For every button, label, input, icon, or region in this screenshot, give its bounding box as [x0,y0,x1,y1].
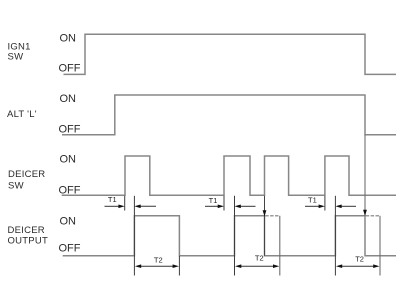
dimension T2 group 3 [336,255,380,269]
label DEICER OUTPUT [8,225,49,246]
wire hypothetical fall edge T2 extension at 380 [379,216,381,276]
node T1 extension SW rise 2 [223,196,225,211]
wire ALT 'L' waveform [62,95,396,135]
node T2 extension output fall 1 [178,256,180,276]
label IGN1 SW [8,42,31,63]
svg-text:T2: T2 [255,254,264,263]
svg-text:ON: ON [60,33,77,45]
node T2 extension output rise 3 [334,196,336,276]
svg-text:OUTPUT: OUTPUT [8,236,49,247]
wire IGN1 SW waveform [64,34,397,74]
dimension T1 group 2 [205,196,256,208]
wire dashed hypothetical ON segment 3 [366,215,380,217]
node T1 extension SW rise 1 [124,196,126,211]
svg-text:DEICER: DEICER [8,169,45,180]
wire reference line IGN off [363,135,367,216]
svg-text:ALT 'L': ALT 'L' [7,109,37,120]
node T2 extension output rise 2 [234,196,236,276]
dimension T1 group 1 [105,195,157,208]
label DEICER SW [8,169,45,191]
wire DEICER OUTPUT waveform [63,216,396,256]
svg-text:OFF: OFF [59,123,81,135]
svg-text:ON: ON [60,93,77,105]
svg-text:T2: T2 [355,255,364,264]
wire reference line SW press 3 [263,196,267,256]
svg-text:ON: ON [60,154,77,166]
dimension T2 group 2 [235,254,279,268]
svg-text:T2: T2 [154,256,163,265]
svg-text:T1: T1 [308,195,317,204]
svg-text:OFF: OFF [59,63,81,75]
node T2 extension output rise 1 [133,196,135,276]
svg-text:OFF: OFF [59,243,81,255]
svg-text:ON: ON [60,215,77,227]
wire hypothetical fall edge T2 extension at 279.8 [279,216,281,276]
svg-text:T1: T1 [108,195,117,204]
svg-text:DEICER: DEICER [8,225,45,236]
node T1 extension SW rise 4 [324,196,326,211]
dimension T1 group 3 [305,195,356,208]
wire DEICER SW waveform [62,156,396,195]
dimension T2 group 1 [135,256,179,268]
svg-text:SW: SW [8,180,24,191]
svg-text:T1: T1 [209,196,218,205]
svg-text:SW: SW [8,51,24,62]
wire dashed hypothetical ON segment 2 [265,215,280,217]
